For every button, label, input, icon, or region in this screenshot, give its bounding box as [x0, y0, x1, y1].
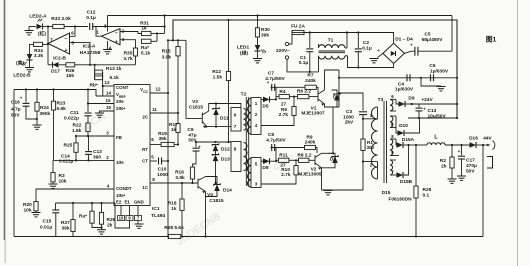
svg-text:5.1k: 5.1k	[110, 75, 120, 81]
capacitor C12 0.1u	[89, 23, 91, 30]
svg-text:+: +	[377, 48, 380, 53]
resistor R16 3.9k	[193, 161, 197, 167]
svg-text:0.1μ: 0.1μ	[362, 45, 372, 51]
svg-text:D15B: D15B	[400, 179, 413, 185]
svg-text:R16: R16	[175, 170, 184, 176]
capacitor C15 0.01u	[55, 203, 57, 210]
resistor R1 300	[361, 139, 365, 150]
capacitor C10 1000	[158, 158, 160, 165]
wire bottom pins to divider rail	[115, 203, 130, 228]
capacitor C17 470u/50V	[461, 145, 463, 155]
svg-text:0.01μ: 0.01μ	[40, 225, 52, 231]
fuse FU 2A	[289, 33, 292, 45]
diode D10	[396, 116, 398, 133]
svg-text:220V~: 220V~	[276, 48, 290, 54]
svg-text:14: 14	[106, 91, 111, 96]
svg-text:15: 15	[106, 98, 111, 103]
wire output down to bus	[482, 145, 484, 237]
node C8 branch	[275, 160, 277, 162]
svg-text:44V: 44V	[483, 136, 492, 142]
svg-text:8: 8	[234, 147, 237, 152]
output node after rectifiers	[407, 144, 409, 146]
svg-text:C1815: C1815	[209, 198, 223, 204]
svg-text:D12: D12	[221, 147, 230, 153]
svg-text:R7: R7	[307, 73, 313, 79]
svg-text:+24V: +24V	[421, 97, 433, 103]
svg-text:10k: 10k	[24, 208, 32, 214]
svg-text:4.7μ: 4.7μ	[11, 107, 21, 113]
svg-text:3.9k: 3.9k	[175, 175, 185, 181]
zener D11	[215, 104, 217, 109]
svg-text:6: 6	[151, 137, 154, 142]
wire left frame vertical	[13, 90, 15, 237]
pin 10 9 7 bottom stubs	[118, 216, 125, 221]
resistor R23 5.6k	[53, 90, 55, 102]
resistor 5.1k	[95, 76, 103, 80]
svg-text:D14: D14	[223, 188, 232, 194]
svg-text:13: 13	[105, 80, 110, 85]
svg-text:39k: 39k	[158, 136, 166, 142]
wire fuse to bridge	[304, 32, 390, 34]
svg-text:1IN+: 1IN+	[116, 193, 126, 198]
diode D9	[396, 99, 399, 104]
svg-text:1: 1	[255, 101, 258, 106]
svg-text:R18: R18	[168, 201, 177, 207]
wire pin 4 line	[36, 189, 114, 202]
wire neutral rail	[287, 59, 319, 72]
svg-text:D15A: D15A	[402, 137, 415, 143]
resistor R12 1.5k	[228, 20, 230, 72]
resistor R18 1k	[181, 183, 183, 199]
resistor R34 3.3k	[34, 42, 43, 46]
capacitor C16 4.7u/50V	[25, 90, 27, 103]
svg-text:LED2-A: LED2-A	[29, 14, 47, 20]
capacitor C2 0.1u	[357, 33, 359, 49]
node C7 branch	[275, 98, 277, 100]
resistor R33 3.0k	[53, 24, 64, 28]
svg-text:C12: C12	[87, 10, 96, 16]
svg-text:C10: C10	[158, 167, 167, 173]
svg-text:C15: C15	[43, 219, 52, 225]
svg-text:2: 2	[255, 112, 258, 117]
T3 secondary winding B	[390, 116, 393, 128]
svg-text:R28 5.6k: R28 5.6k	[164, 225, 184, 231]
wire long vertical feed	[167, 40, 169, 236]
wire bottom ground bus	[14, 236, 168, 238]
resistor R26 2k	[101, 203, 103, 212]
svg-text:1μ/630V: 1μ/630V	[395, 87, 414, 93]
svg-text:R23: R23	[57, 101, 66, 107]
resistor Ra* 5.1k	[141, 39, 151, 43]
wire +310V top bus	[108, 15, 453, 17]
svg-text:1k: 1k	[171, 127, 177, 132]
wire R33 to C12	[64, 26, 88, 28]
svg-text:5: 5	[255, 162, 258, 167]
svg-text:27: 27	[281, 102, 287, 108]
wire divider cap rail	[339, 77, 457, 79]
svg-text:R11: R11	[279, 153, 288, 159]
svg-text:E2: E2	[116, 200, 122, 205]
T2 core	[245, 97, 247, 186]
wire T1 bottom right to bridge	[345, 56, 394, 68]
svg-text:68μ/450V: 68μ/450V	[422, 37, 444, 43]
svg-text:C1815: C1815	[189, 105, 203, 111]
svg-text:2k: 2k	[441, 164, 447, 170]
svg-text:1k: 1k	[171, 206, 177, 212]
svg-text:LED2-B: LED2-B	[13, 73, 31, 79]
svg-text:3.3k: 3.3k	[34, 53, 44, 59]
svg-text:4.7μ/50V: 4.7μ/50V	[266, 138, 286, 144]
svg-text:IC2-A: IC2-A	[83, 44, 96, 50]
svg-text:V4: V4	[207, 192, 213, 198]
resistor R27 39k	[72, 203, 74, 219]
svg-text:MJE13007: MJE13007	[301, 111, 325, 117]
wire V1 collector up	[325, 70, 340, 90]
op-amp IC2-A HA17358	[102, 29, 121, 45]
svg-text:−: −	[115, 31, 118, 37]
wire R34 to LED2-B	[30, 44, 34, 54]
svg-text:R15: R15	[162, 49, 171, 55]
svg-text:D7: D7	[330, 157, 336, 163]
svg-text:D9: D9	[408, 96, 414, 102]
wire D13 down	[215, 161, 217, 183]
capacitor C13 10u/50V	[418, 104, 420, 107]
svg-text:2IN-: 2IN-	[116, 99, 125, 104]
svg-text:R33 3.0k: R33 3.0k	[51, 16, 71, 22]
svg-text:8: 8	[152, 177, 155, 182]
svg-text:V3: V3	[192, 99, 198, 105]
transistor V2 MJE13005	[314, 155, 316, 165]
svg-text:6: 6	[71, 31, 74, 36]
resistor R28 on ground bus	[168, 234, 180, 238]
page left edge line	[4, 0, 6, 240]
svg-text:R2: R2	[440, 158, 446, 164]
bridge rectifier D1-D4	[383, 43, 405, 63]
resistor R24 390k	[36, 90, 38, 103]
T3 core	[383, 101, 385, 183]
svg-text:C6: C6	[429, 63, 435, 69]
svg-text:2kV: 2kV	[345, 120, 354, 126]
wire FB node to pin 3	[76, 135, 114, 137]
resistor R5 2.7k	[293, 97, 295, 107]
wire T2 pin1 row	[261, 98, 263, 100]
capacitor C8 4.7u/50V	[271, 144, 273, 151]
inductor L	[416, 144, 427, 146]
page right edge line	[517, 0, 519, 266]
wire V3 collector rail	[209, 104, 241, 112]
svg-text:HA17358: HA17358	[80, 50, 101, 56]
svg-text:1.8k: 1.8k	[72, 128, 82, 134]
svg-text:R22: R22	[73, 123, 82, 129]
ground under R24	[33, 124, 42, 126]
capacitor C6 1u/630V	[430, 74, 432, 81]
svg-text:1k: 1k	[141, 26, 147, 32]
svg-text:5.1k: 5.1k	[141, 51, 151, 57]
ground under R3	[49, 183, 58, 185]
svg-text:T3: T3	[378, 97, 384, 103]
transistor V1 MJE13007	[317, 92, 319, 102]
svg-text:C2: C2	[363, 40, 369, 46]
svg-text:12: 12	[155, 87, 161, 92]
node LED2-A/R33	[47, 25, 49, 27]
wire V1 emitter	[325, 104, 340, 107]
wire C12 to bus corner	[93, 26, 165, 28]
resistor R20 10k	[34, 202, 38, 211]
resistor R10 2.7k	[295, 160, 297, 165]
capacitor C13 390	[88, 136, 90, 151]
svg-text:C8: C8	[268, 132, 274, 138]
svg-text:IC1: IC1	[152, 206, 160, 212]
ground rail under V2	[322, 189, 364, 191]
svg-text:10k: 10k	[59, 179, 67, 185]
svg-text:R35: R35	[124, 51, 133, 57]
diode D15B	[395, 174, 398, 176]
wire V4 emitter to bus	[205, 195, 207, 237]
wire deadtime divider rail	[56, 202, 116, 204]
ground at bridge	[378, 53, 383, 57]
resistor R22 1.8k	[86, 123, 90, 132]
output terminal 44V	[482, 144, 484, 146]
resistor Ra2*	[91, 203, 93, 211]
resistor R25	[75, 136, 77, 143]
svg-text:Ra*: Ra*	[79, 214, 87, 220]
svg-text:0.022μ: 0.022μ	[64, 116, 79, 122]
diode D8	[263, 158, 270, 164]
svg-text:+: +	[198, 145, 201, 150]
svg-text:7: 7	[234, 124, 237, 129]
diode D17	[53, 62, 59, 68]
resistor R36 15k	[66, 63, 75, 67]
svg-text:RT: RT	[142, 147, 148, 152]
svg-text:8: 8	[104, 24, 107, 29]
svg-text:390: 390	[93, 155, 101, 161]
svg-text:R13 1k: R13 1k	[106, 66, 122, 72]
svg-text:+: +	[115, 40, 118, 46]
svg-text:2.7k: 2.7k	[279, 112, 289, 118]
svg-text:MJE13005: MJE13005	[298, 172, 322, 178]
svg-text:C5: C5	[424, 32, 430, 38]
svg-text:R3: R3	[59, 173, 65, 179]
svg-text:3: 3	[255, 182, 258, 187]
zener D14	[214, 183, 220, 185]
svg-text:10: 10	[119, 215, 124, 220]
svg-text:(绿): (绿)	[240, 50, 248, 57]
svg-text:T2: T2	[241, 92, 247, 98]
resistor R3 10k	[52, 160, 54, 172]
transistor V4 C1815	[197, 179, 199, 189]
svg-text:39k: 39k	[261, 32, 269, 38]
svg-text:2k: 2k	[107, 223, 113, 229]
svg-text:D10: D10	[399, 123, 408, 129]
diode D15A	[395, 139, 398, 145]
T3 secondary winding D	[390, 160, 393, 175]
svg-text:E1: E1	[125, 200, 131, 205]
svg-text:15k: 15k	[66, 73, 74, 79]
resistor R15 3.0k	[177, 40, 179, 46]
resistor R31 1k	[141, 31, 151, 35]
wire Vref rail	[14, 90, 96, 97]
ground under R20	[32, 212, 41, 214]
svg-text:FU 2A: FU 2A	[291, 24, 305, 30]
svg-text:0.1μ: 0.1μ	[299, 60, 309, 66]
svg-text:R12: R12	[212, 69, 221, 75]
svg-text:R8 2.2: R8 2.2	[297, 153, 311, 159]
wire Ra* right	[151, 40, 157, 42]
wire +24V drop to R15 rail	[168, 39, 186, 41]
ground symbol V2	[324, 191, 333, 195]
LED2-A	[29, 26, 36, 28]
resistor R4 27	[276, 96, 279, 98]
svg-text:C13: C13	[428, 108, 437, 114]
svg-text:(红): (红)	[38, 30, 46, 37]
wire R9 to V2 collector node	[316, 148, 318, 154]
svg-text:39k: 39k	[62, 226, 70, 232]
capacitor C5 68u/450V	[404, 51, 411, 53]
svg-text:3.0k: 3.0k	[162, 55, 172, 61]
resistor R29 0.1	[415, 145, 417, 186]
load bracket	[487, 157, 493, 169]
svg-text:2IN+: 2IN+	[116, 106, 126, 111]
svg-text:2C: 2C	[142, 115, 148, 120]
svg-text:390k: 390k	[40, 111, 51, 117]
svg-text:R24: R24	[40, 105, 49, 111]
resistor R35 3.7k	[135, 40, 137, 48]
wire V2 collector to half-bridge	[322, 152, 334, 154]
wire R13 pair to pin 13	[102, 72, 104, 86]
svg-text:2: 2	[122, 29, 125, 34]
svg-text:5: 5	[151, 155, 154, 160]
svg-text:D8: D8	[262, 165, 268, 171]
svg-text:CONDT: CONDT	[116, 186, 132, 191]
svg-text:−: −	[65, 36, 68, 42]
wire C5 to top bus	[451, 16, 453, 52]
svg-text:CONT: CONT	[116, 85, 129, 90]
transistor V3 C1815	[201, 113, 203, 124]
capacitor C1 0.1u	[309, 33, 311, 49]
wire R7 to V1 base node	[316, 87, 318, 92]
svg-text:(黄): (黄)	[16, 60, 24, 67]
terminal 220V top	[285, 42, 288, 45]
capacitor 47u 50V soft start	[195, 142, 197, 147]
svg-text:R27: R27	[61, 220, 70, 226]
svg-text:D5: D5	[262, 104, 268, 110]
T2 right upper winding	[251, 98, 261, 135]
wire +24V distribution bus	[173, 20, 457, 118]
wire T2 pin5 row	[261, 160, 263, 162]
svg-text:1.5k: 1.5k	[213, 75, 223, 81]
resistor R2 2k	[451, 145, 453, 157]
svg-text:图1: 图1	[486, 35, 497, 44]
svg-text:LED1: LED1	[237, 45, 250, 51]
svg-text:C3: C3	[346, 109, 352, 115]
zener D13	[215, 151, 217, 155]
svg-text:300: 300	[367, 145, 375, 150]
capacitor C4 1u/630V	[406, 74, 408, 81]
wire soft-start node	[196, 141, 231, 143]
capacitor C7 4.7u/50V	[271, 84, 273, 91]
svg-text:D13: D13	[221, 157, 230, 163]
svg-text:+: +	[20, 96, 23, 101]
zener D6	[332, 90, 338, 94]
wire T3 pin1	[363, 118, 375, 120]
svg-text:2.7k: 2.7k	[281, 172, 291, 178]
op-amp IC2-B	[48, 33, 70, 54]
ground under R2	[448, 178, 457, 180]
ground under C17	[457, 175, 466, 177]
resistor R30 39k	[256, 14, 258, 16]
LED1	[255, 45, 261, 51]
ground at divider midpoint	[421, 78, 441, 86]
svg-text:Ra*: Ra*	[141, 45, 149, 51]
resistor R6 2.2	[289, 96, 297, 98]
svg-text:TL494: TL494	[151, 213, 165, 219]
svg-text:0.1μ: 0.1μ	[86, 15, 96, 21]
IC U1 TL494 body	[114, 85, 150, 206]
wire IC2-B output node	[42, 43, 48, 45]
wire V4 collector	[206, 177, 218, 185]
terminal 220V bottom	[285, 56, 288, 59]
ground under IC1 GND pin	[137, 221, 139, 225]
diode D16	[470, 142, 477, 148]
diode D5	[263, 97, 270, 103]
svg-text:50V: 50V	[11, 113, 20, 119]
svg-text:C11: C11	[70, 110, 79, 116]
resistor R17 1k	[176, 124, 180, 133]
wire C7 to R7	[275, 86, 305, 88]
wire R31 right to bus vertical	[151, 33, 165, 35]
zener D12	[212, 143, 218, 145]
capacitor C11 0.022u	[87, 90, 89, 113]
svg-text:11: 11	[152, 107, 157, 112]
wire V2 emitter to ground rail	[321, 168, 323, 190]
svg-text:D11: D11	[220, 116, 229, 122]
svg-text:C17: C17	[466, 158, 475, 164]
ground under LED1	[253, 58, 262, 60]
svg-text:D15: D15	[382, 190, 391, 196]
resistor R11 27	[276, 159, 279, 161]
svg-text:R30: R30	[261, 27, 270, 33]
svg-text:1000: 1000	[157, 172, 168, 178]
wire T3 pin2	[363, 161, 375, 163]
T2 right lower winding	[251, 158, 261, 188]
wire node to R33	[48, 26, 53, 28]
svg-text:T1: T1	[328, 38, 334, 44]
svg-text:4: 4	[255, 123, 258, 128]
wire vertical joining top bus	[164, 16, 166, 34]
T3 secondary winding A	[390, 99, 393, 111]
resistor R8 2.2	[289, 159, 299, 161]
svg-text:IC2-B: IC2-B	[53, 56, 66, 62]
svg-text:C7: C7	[268, 71, 274, 77]
svg-text:CT: CT	[142, 159, 148, 164]
ground at LED2-A	[28, 27, 30, 31]
ground under R26	[97, 229, 106, 231]
svg-text:0.022μ: 0.022μ	[59, 159, 73, 164]
capacitor C3 1000 2kV	[359, 111, 367, 113]
svg-text:240k: 240k	[305, 78, 316, 84]
svg-text:1C: 1C	[142, 185, 148, 190]
svg-text:R20: R20	[23, 202, 32, 208]
svg-text:R25: R25	[64, 143, 73, 149]
svg-text:+: +	[65, 48, 68, 54]
svg-text:1μ/630V: 1μ/630V	[430, 68, 449, 74]
svg-text:F06160DN: F06160DN	[388, 197, 412, 203]
svg-text:R4: R4	[279, 89, 285, 95]
svg-text:D16: D16	[469, 136, 478, 142]
wire C8 to R9	[275, 147, 305, 149]
ground at LED2-B	[25, 67, 34, 69]
svg-text:C13: C13	[93, 149, 102, 155]
